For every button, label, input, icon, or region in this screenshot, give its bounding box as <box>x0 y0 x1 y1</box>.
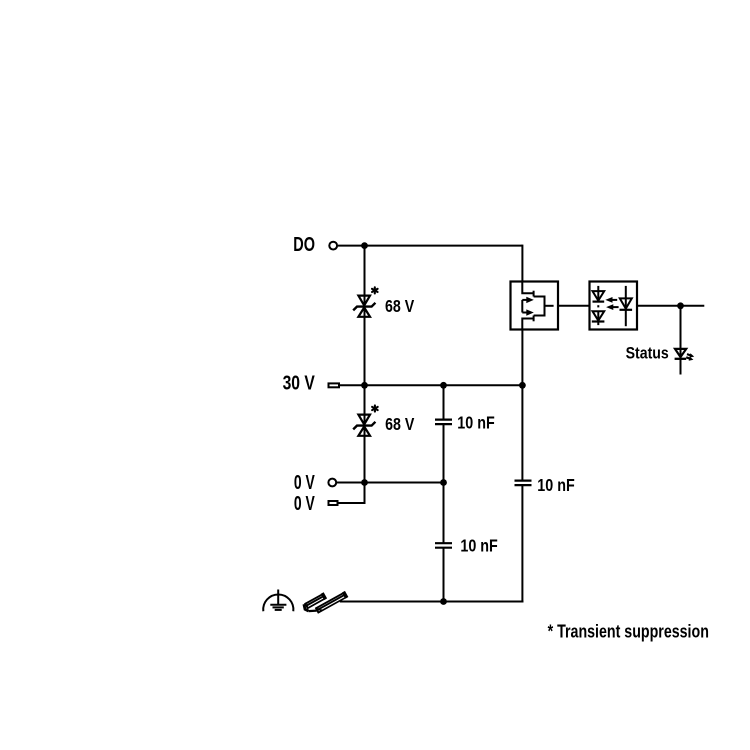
svg-text:68 V: 68 V <box>385 296 414 316</box>
svg-text:0 V: 0 V <box>294 472 315 494</box>
svg-text:DO: DO <box>293 234 315 256</box>
svg-text:10 nF: 10 nF <box>460 536 498 556</box>
svg-text:* Transient suppression: * Transient suppression <box>548 620 709 641</box>
svg-text:30 V: 30 V <box>283 372 316 394</box>
svg-text:0 V: 0 V <box>294 493 315 515</box>
svg-text:10 nF: 10 nF <box>457 412 495 432</box>
svg-text:10 nF: 10 nF <box>537 475 575 495</box>
svg-text:68 V: 68 V <box>385 414 414 434</box>
svg-text:Status: Status <box>626 343 669 362</box>
